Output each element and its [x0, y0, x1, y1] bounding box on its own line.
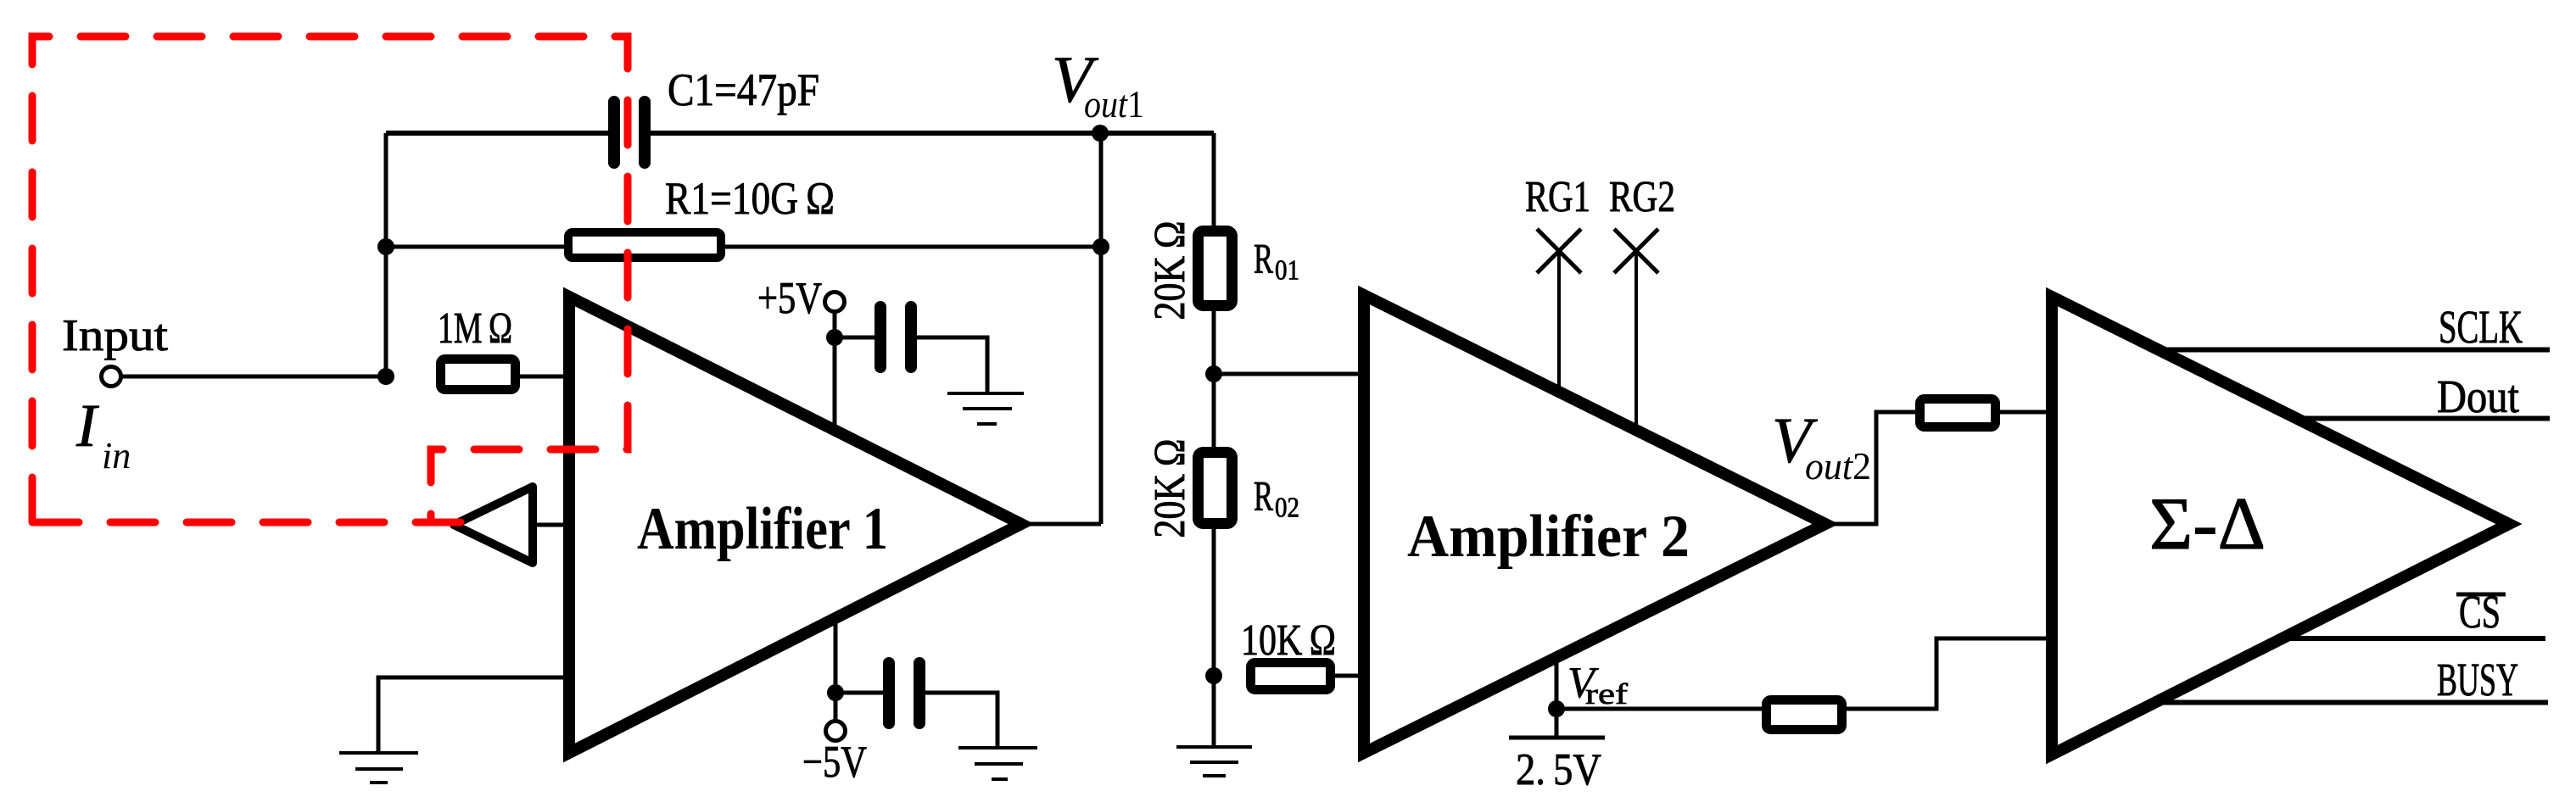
svg-text:R1=10G Ω: R1=10G Ω [665, 173, 835, 224]
wire amp2 output [1825, 412, 1917, 524]
wire -5V from amp1 bottom edge down [834, 621, 838, 722]
wire cap to ground [925, 693, 997, 746]
bypass capacitor -5V [883, 657, 895, 729]
op-amp Amplifier 1 [569, 297, 1021, 753]
wire output up to Vout1 [1099, 133, 1104, 524]
wire mid node down [1212, 374, 1216, 447]
bypass capacitor +5V [874, 301, 886, 373]
wire to bypass cap [835, 691, 884, 695]
wire RG1 to amp2 [1557, 251, 1561, 392]
-5V terminal [826, 722, 846, 741]
capacitor C1 [608, 96, 620, 169]
resistor R01 [1199, 231, 1232, 306]
svg-text:10K Ω: 10K Ω [1241, 616, 1336, 665]
svg-text:1M Ω: 1M Ω [438, 304, 512, 353]
svg-text:Amplifier 1: Amplifier 1 [637, 496, 888, 562]
ground G2 [947, 392, 1024, 395]
resistor Vref-SD [1767, 700, 1842, 730]
svg-text:SCLK: SCLK [2439, 301, 2523, 353]
wire BUSY [2155, 700, 2548, 705]
junction divider mid [1205, 365, 1222, 382]
svg-text:C1=47pF: C1=47pF [668, 64, 819, 115]
wire Vref from amp2 bottom edge [1555, 658, 1559, 736]
wire 1M to amp1 [520, 375, 567, 379]
junction divider bottom [1205, 667, 1222, 684]
svg-text:Dout: Dout [2437, 371, 2519, 422]
resistor 10K [1251, 663, 1331, 690]
svg-text:20K Ω: 20K Ω [1146, 221, 1194, 320]
wire buffer to amp1 [534, 523, 567, 527]
svg-text:R: R [1254, 235, 1273, 282]
svg-text:Σ-Δ: Σ-Δ [2149, 483, 2266, 566]
svg-text:Amplifier 2: Amplifier 2 [1407, 504, 1690, 570]
wire Vref to resistor [1556, 707, 1763, 711]
wire input to junction [121, 375, 386, 379]
node Vout1 [1092, 125, 1109, 142]
resistor Vout2-SD [1920, 399, 1996, 427]
wire R02 down to bottom node [1212, 529, 1216, 745]
svg-text:in: in [102, 435, 131, 476]
buffer arrow at inverting input [454, 487, 533, 563]
op-amp Amplifier 2 [1364, 295, 1825, 753]
wire Dout [2297, 416, 2550, 421]
wire resistor to sigma-delta [1847, 638, 2047, 709]
wire cap to ground [917, 337, 987, 392]
svg-text:BUSY: BUSY [2437, 654, 2518, 705]
sigma-delta ADC [2052, 297, 2509, 755]
svg-text:20K Ω: 20K Ω [1146, 439, 1194, 538]
junction -5V [827, 684, 844, 701]
junction +5V [826, 329, 843, 346]
wire SCLK [2159, 348, 2550, 353]
wire RG2 to amp2 [1634, 251, 1638, 431]
ground G1 [339, 751, 418, 755]
wire top to C1 [386, 131, 610, 136]
resistor R02 [1199, 453, 1232, 524]
svg-text:out2: out2 [1805, 444, 1871, 488]
trim X RG2 [1614, 229, 1658, 273]
2.5V reference bar [1509, 736, 1605, 740]
wire to bypass cap [835, 336, 877, 340]
svg-text:01: 01 [1275, 255, 1299, 287]
trim X RG1 [1537, 229, 1581, 273]
svg-text:RG2: RG2 [1609, 173, 1675, 221]
wire input node up to top [384, 133, 388, 376]
svg-text:RG1: RG1 [1525, 173, 1590, 221]
svg-text:out1: out1 [1084, 82, 1144, 125]
wire R1 right [725, 245, 1101, 249]
red dashed boundary box [32, 36, 628, 522]
svg-text:Input: Input [62, 311, 168, 360]
node Vref [1548, 700, 1565, 717]
ground G3 [958, 746, 1037, 749]
svg-text:2. 5V: 2. 5V [1516, 745, 1601, 794]
wire +5V down to amp1 top edge [833, 312, 837, 429]
wire C1 to Vout1 [651, 131, 1214, 136]
wire R01 to mid node [1212, 311, 1216, 374]
junction R1 right [1092, 238, 1109, 255]
wire R1 left [386, 245, 564, 249]
wire amp1 lower input [378, 677, 567, 751]
junction at input node [377, 368, 394, 385]
svg-text:R: R [1254, 472, 1273, 520]
wire 10K to amp2 [1335, 674, 1364, 678]
+5V terminal [825, 293, 845, 312]
ground G4 [1176, 745, 1252, 749]
wire Vout1 to divider top [1212, 133, 1216, 229]
resistor R1 [568, 232, 721, 258]
node Input terminal [102, 367, 121, 387]
svg-text:−5V: −5V [802, 738, 867, 787]
svg-text:ref: ref [1585, 677, 1628, 710]
wire mid node to amp2 [1214, 372, 1364, 376]
svg-text:+5V: +5V [757, 274, 822, 323]
wire CS [2283, 636, 2545, 641]
wire amp1 output [1021, 522, 1101, 527]
svg-text:02: 02 [1275, 493, 1299, 524]
wire resistor to sigma-delta [2000, 410, 2046, 415]
junction R1 left [377, 238, 394, 255]
svg-text:I: I [75, 392, 99, 460]
resistor 1M [441, 359, 516, 390]
